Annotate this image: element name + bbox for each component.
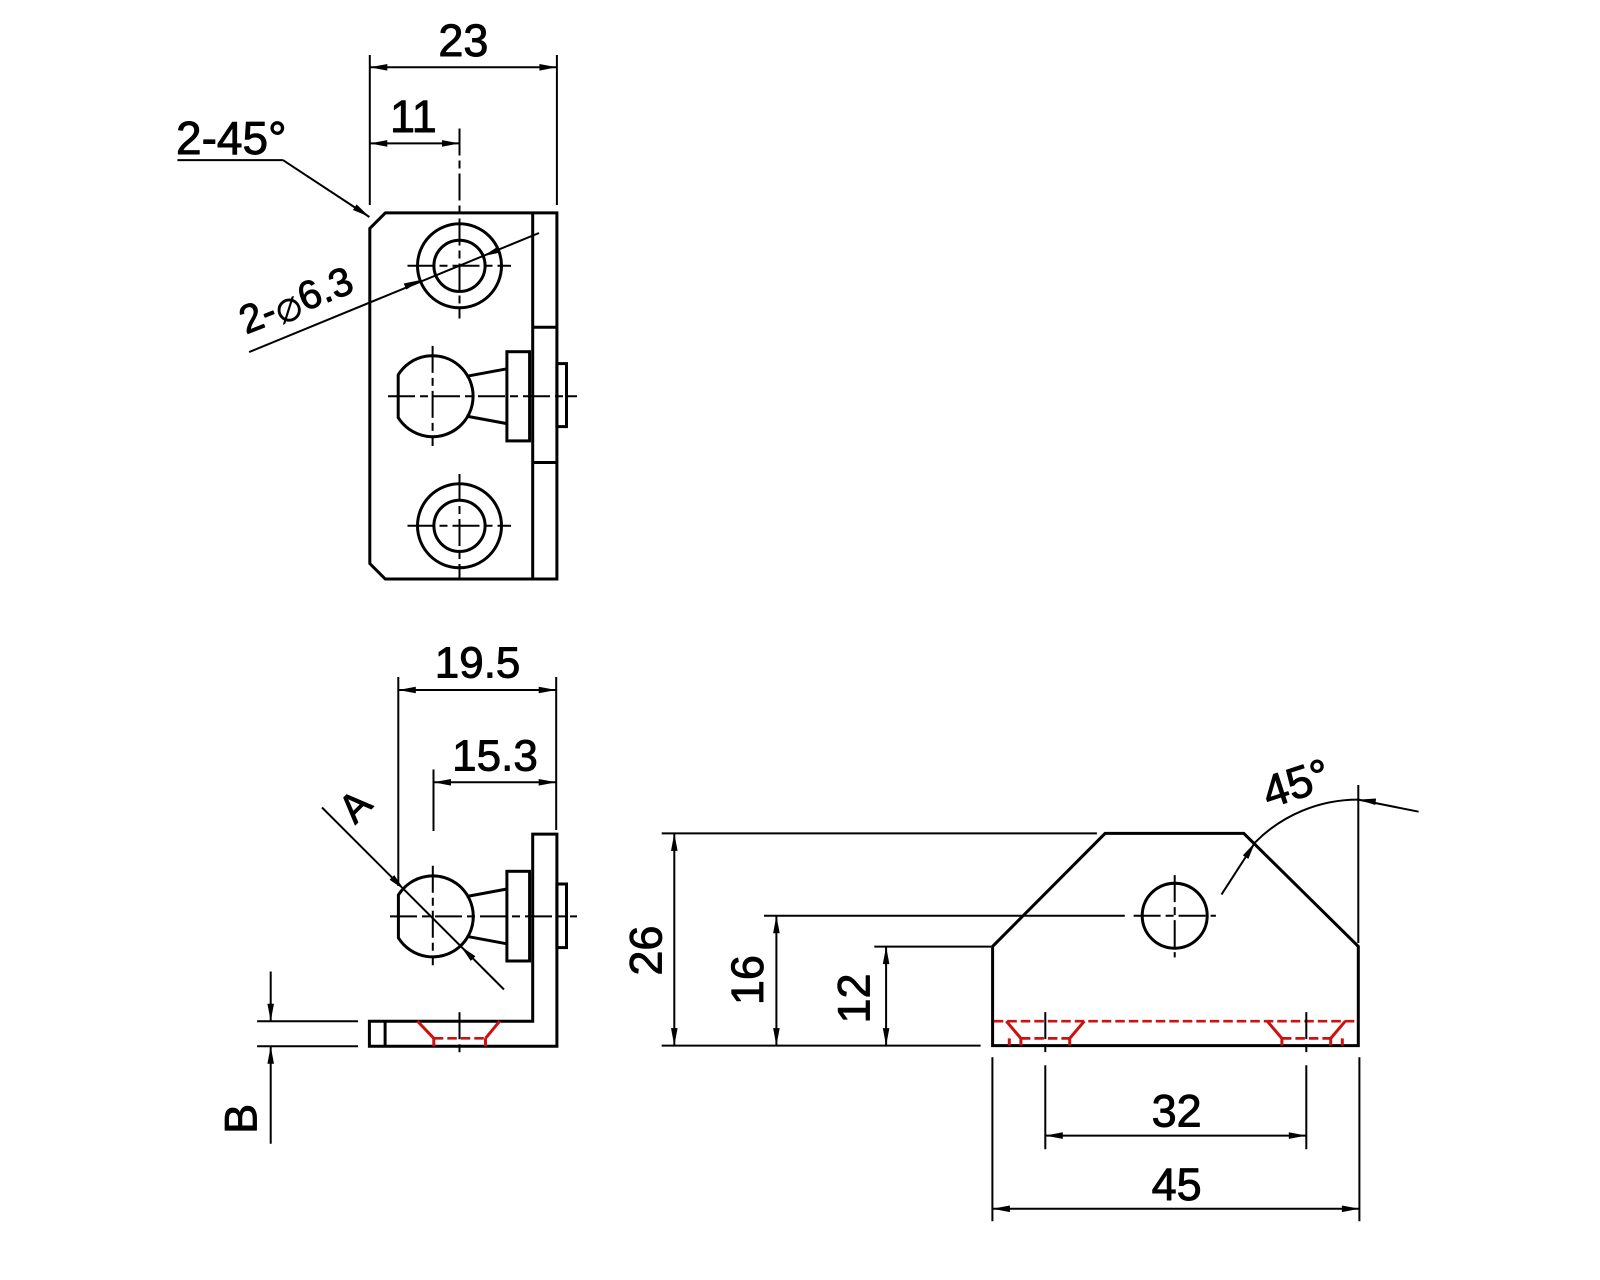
angle 45 extension line vertical — [1357, 785, 1359, 943]
svg-text:23: 23 — [438, 15, 488, 66]
dim 45 right extension line — [1358, 1057, 1360, 1221]
dim 15.3 text — [452, 732, 538, 781]
dim 19.5 left extension line — [397, 677, 399, 886]
side view countersink right cone red — [486, 1021, 500, 1038]
bottom hole circle — [434, 500, 485, 551]
top view plate outline — [370, 213, 557, 579]
dim 32 dimension line — [1045, 1132, 1306, 1139]
svg-text:16: 16 — [722, 955, 773, 1005]
dim B bottom extension line — [257, 1045, 358, 1047]
dim 23 dimension line — [370, 64, 557, 71]
bottom hole counterbore circle — [418, 484, 502, 568]
side view hole wall left red — [432, 1038, 435, 1046]
chamfer note leader — [283, 160, 371, 219]
right countersink centerline — [1305, 1012, 1307, 1055]
top hole counterbore circle — [418, 224, 502, 308]
dim 32 text — [1152, 1086, 1202, 1137]
hole note leader line — [249, 233, 539, 352]
dim 16 text — [722, 955, 773, 1005]
dim 19.5 dimension line — [398, 687, 556, 694]
svg-text:19.5: 19.5 — [435, 639, 521, 688]
side view stud axis centerline — [390, 915, 577, 917]
bottom hole horizontal centerline — [408, 525, 512, 527]
chamfer note 2-45 text — [176, 112, 286, 164]
top hole vertical centerline — [459, 129, 461, 319]
dim 19.5 text — [435, 639, 521, 688]
dim 12 text — [829, 973, 880, 1023]
dim 15.3 extension line — [433, 770, 435, 832]
angle 45 dimension arc — [1255, 800, 1358, 843]
dim 32 right extension line — [1305, 1065, 1307, 1149]
dim 11 dimension line — [370, 140, 460, 147]
right countersink outboard red tick — [1341, 1038, 1344, 1045]
left countersink left cone red — [1006, 1021, 1021, 1038]
side view taper lower line — [467, 936, 507, 944]
dim B lower dimension line — [267, 1046, 274, 1144]
angle 45 chamfer side arrow — [1222, 841, 1258, 895]
top view flange step upper — [533, 326, 557, 329]
front view hole vertical centerline — [1174, 875, 1176, 957]
dim 23 right extension line — [556, 55, 558, 205]
top view flange step lower — [533, 461, 557, 464]
svg-text:2-45°: 2-45° — [176, 112, 286, 164]
svg-text:11: 11 — [390, 91, 437, 142]
dim 16 extension line — [764, 915, 1125, 917]
top hole circle — [434, 240, 485, 291]
dim 45 left extension line — [991, 1057, 993, 1221]
ball stud flange rect — [507, 352, 530, 441]
side view countersink centerline — [459, 1012, 461, 1055]
left countersink right cone red — [1070, 1021, 1085, 1038]
top hole horizontal centerline — [408, 265, 512, 267]
ball stud taper lower line — [466, 416, 507, 424]
svg-text:12: 12 — [829, 973, 880, 1023]
dim B upper dimension line — [267, 972, 274, 1022]
dim 12 extension line — [874, 946, 991, 948]
side view countersink bottom red dashed — [434, 1037, 486, 1040]
dim B top extension line — [257, 1020, 358, 1022]
dim 26 text — [621, 926, 672, 976]
dim 16 dimension line — [773, 916, 780, 1046]
dim 19.5 right extension line — [555, 677, 557, 830]
bottom hole vertical centerline — [459, 474, 461, 578]
svg-text:32: 32 — [1152, 1086, 1202, 1137]
dim B text — [216, 1104, 267, 1134]
right countersink bottom red dashed — [1282, 1037, 1331, 1040]
svg-text:45: 45 — [1152, 1159, 1202, 1210]
section A text — [330, 781, 380, 831]
dim 45 dimension line — [992, 1206, 1359, 1213]
dim 15.3 dimension line — [434, 779, 557, 786]
left countersink bottom red dashed — [1021, 1037, 1070, 1040]
left countersink outboard red tick — [1008, 1038, 1011, 1045]
ball stud taper upper line — [466, 369, 507, 377]
svg-text:26: 26 — [621, 926, 672, 976]
left countersink hole wall left red — [1019, 1038, 1022, 1045]
side view taper upper line — [467, 889, 507, 897]
angle 45 vertical side arrow — [1358, 796, 1419, 811]
ball stud sphere side view — [398, 876, 473, 957]
svg-text:B: B — [216, 1104, 267, 1134]
side view countersink left cone red — [417, 1021, 433, 1038]
dim 26 top extension line — [662, 832, 1097, 834]
side view L-bracket outline — [369, 834, 557, 1046]
front view leg surface red dashed line — [994, 1020, 1357, 1023]
right countersink hole wall right red — [1329, 1038, 1332, 1045]
dim 12 dimension line — [883, 947, 890, 1046]
ball stud boss rect — [557, 364, 567, 427]
dim 26 bottom extension line — [662, 1045, 981, 1047]
top view flange edge line — [531, 213, 534, 579]
front view hole circle — [1142, 883, 1207, 948]
side view ball vertical centerline — [432, 866, 434, 966]
stud axis centerline top view — [388, 395, 577, 397]
dim 23 left extension line — [369, 55, 371, 205]
dim 45 text — [1152, 1159, 1202, 1210]
side view chamfer edge line — [384, 1021, 387, 1046]
ball stud sphere top view — [398, 356, 473, 437]
side view stud boss rect — [557, 884, 567, 948]
side view stud flange rect — [507, 871, 530, 961]
dim 11 text — [390, 91, 437, 142]
angle 45 text — [1256, 748, 1336, 818]
dim 23 text — [438, 15, 488, 66]
side view hole wall right red — [484, 1038, 487, 1046]
right countersink hole wall left red — [1280, 1038, 1283, 1045]
front view outline — [993, 833, 1359, 1045]
left countersink hole wall right red — [1068, 1038, 1071, 1045]
dim 26 dimension line — [671, 833, 678, 1045]
dim 32 left extension line — [1044, 1065, 1046, 1149]
chamfer note underline — [177, 159, 283, 161]
right countersink left cone red — [1267, 1021, 1282, 1038]
svg-text:15.3: 15.3 — [452, 732, 538, 781]
front view hole horizontal centerline — [1134, 915, 1216, 917]
left countersink centerline — [1044, 1012, 1046, 1055]
ball vertical centerline top view — [432, 346, 434, 446]
section A leader line — [322, 808, 504, 990]
hole note 2-dia6.3 text — [233, 259, 360, 345]
right countersink right cone red — [1331, 1021, 1346, 1038]
